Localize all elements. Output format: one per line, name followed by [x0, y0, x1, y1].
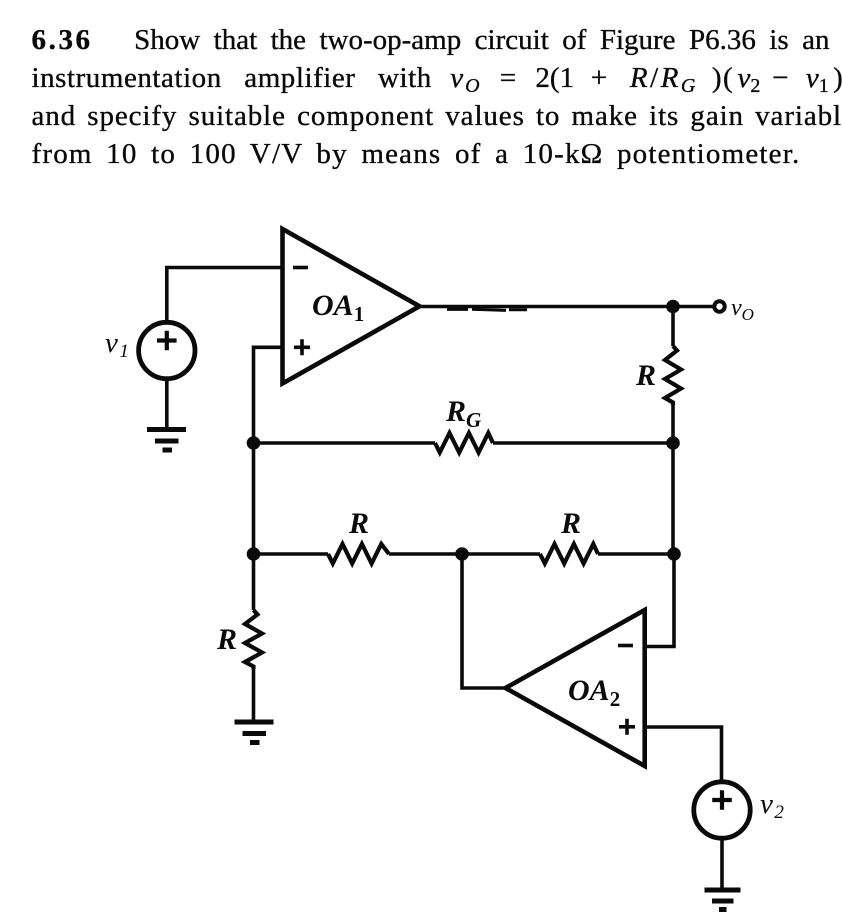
print artifact under output wire [447, 309, 527, 310]
problem statement line 1 [32, 21, 830, 59]
svg-text:R: R [348, 507, 369, 540]
wire OA1 noninverting input down the left rail [254, 347, 283, 554]
wire v1 top to OA1 inverting input [167, 268, 283, 323]
svg-text:R: R [635, 359, 656, 392]
svg-text:R: R [560, 507, 581, 540]
junction dot middle-center [455, 547, 469, 561]
svg-text:v1: v1 [105, 327, 129, 362]
svg-text:vO: vO [731, 295, 754, 324]
problem statement line 2 [32, 59, 842, 97]
OA2 minus pin mark [618, 644, 633, 648]
junction dot middle-right [667, 547, 681, 561]
wire OA2 output to middle-center node [462, 554, 506, 688]
wire OA2 noninverting input to v2 [645, 727, 722, 782]
resistor R (output to RG node), vertical [665, 307, 681, 444]
OA1 minus pin mark [293, 266, 308, 270]
OA2 plus pin mark [619, 719, 635, 735]
wire RG right node to middle right node [671, 443, 675, 554]
wire v2 bottom to ground [720, 838, 724, 889]
output terminal open circle [714, 301, 724, 311]
ground below v2 [705, 890, 741, 910]
wire RG row [254, 441, 674, 445]
source v2 [694, 782, 750, 838]
resistor RG [435, 433, 493, 453]
svg-text:OA2: OA2 [568, 674, 620, 711]
resistor R (grounded, vertical) [245, 554, 262, 720]
wire OA1 output [420, 305, 715, 309]
op-amp OA2 (pointing left) [506, 610, 645, 766]
svg-text:R: R [216, 623, 237, 656]
junction dot RG right [666, 436, 680, 450]
svg-text:OA1: OA1 [312, 289, 364, 326]
wire middle right node down to OA2 inverting input [645, 554, 674, 647]
svg-text:v2: v2 [760, 788, 784, 823]
output node junction dot [666, 300, 680, 314]
op-amp OA1 [283, 229, 420, 384]
resistor R (left, middle row) [328, 544, 389, 564]
junction dot middle-left [247, 547, 261, 561]
problem statement line 3 [32, 97, 842, 135]
OA1 plus pin mark [294, 339, 310, 355]
resistor R (right, middle row) [540, 544, 598, 564]
wire v1 bottom to ground [165, 378, 169, 427]
svg-text:RG: RG [445, 395, 481, 432]
junction dot RG left [247, 436, 261, 450]
ground below grounded R [235, 722, 274, 743]
ground below v1 [147, 430, 186, 451]
source v1 [139, 322, 195, 378]
problem statement line 4 [32, 135, 801, 173]
wire middle row [254, 552, 675, 556]
